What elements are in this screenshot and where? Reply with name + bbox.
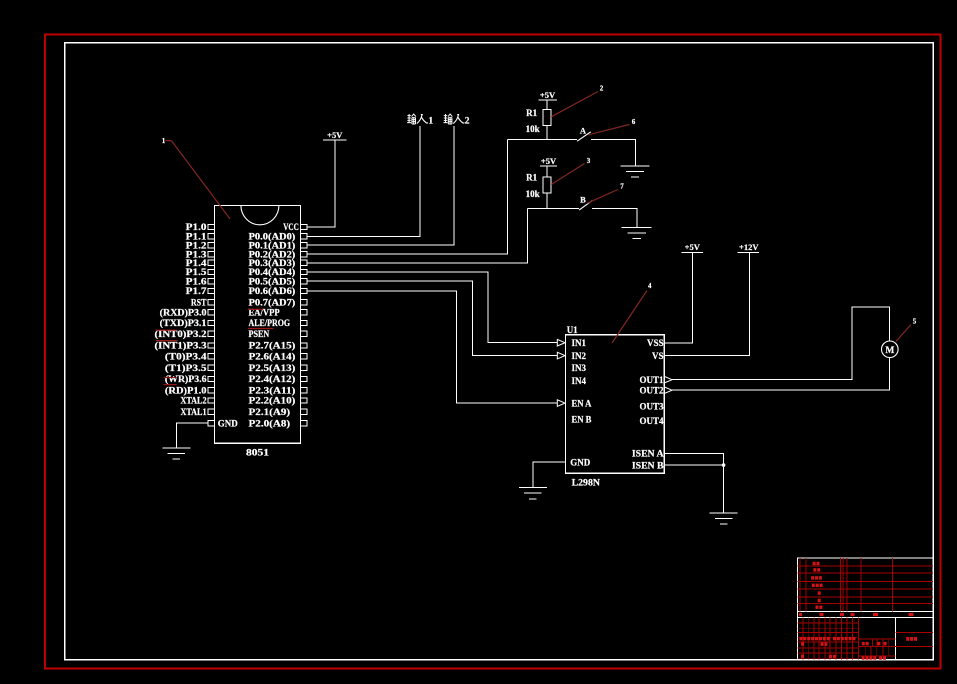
red underbar ALE / overbar PSEN [248,328,274,330]
svg-text:P2.5(A13): P2.5(A13) [249,363,296,373]
wire node B row [527,208,579,210]
motor M [882,341,899,358]
callout 5 leader [896,325,911,342]
svg-text:10k: 10k [526,124,540,134]
junction ISEN [722,463,726,467]
wire node B down to P0.3 [307,209,528,263]
wire P0.4 to IN1 [307,272,558,343]
label shuru2 (input 2) [444,114,470,127]
title block lower red grid [798,618,934,660]
svg-text:(INT1)P3.3: (INT1)P3.3 [155,341,208,351]
svg-text:A: A [580,126,587,136]
svg-text:1: 1 [162,137,166,145]
svg-text:U1: U1 [567,325,578,335]
wire +5V to VSS [664,253,692,343]
callout 2 leader [551,92,598,117]
red overbar RD [164,384,177,386]
wire ISEN B [664,464,723,466]
svg-text:8051: 8051 [246,449,269,459]
svg-text:P2.2(A10): P2.2(A10) [249,396,296,406]
wire P0.5 to IN2 [307,281,558,355]
title block lower red texts [799,637,917,660]
+5V label above R1 (A) [540,90,556,100]
svg-text:OUT1: OUT1 [639,375,664,385]
svg-text:B: B [580,194,586,204]
wire node A down to P0.2 [307,140,508,254]
output arrow OUT2 [664,387,672,394]
svg-text:EN A: EN A [572,398,592,408]
svg-text:P0.7(AD7): P0.7(AD7) [249,298,296,308]
title block white separators [798,610,934,612]
svg-text:P2.4(A12): P2.4(A12) [249,374,296,384]
callout 4 leader [612,291,647,344]
8051 right pin boxes [301,224,307,425]
svg-text:ISEN A: ISEN A [632,449,664,459]
8051 microcontroller U? body [214,205,300,443]
wire ISEN A [664,453,723,465]
wire node A row [508,139,578,141]
svg-text:2: 2 [600,85,604,93]
svg-text:VSS: VSS [647,338,664,348]
8051 left pin labels [155,222,208,417]
svg-text:XTAL2: XTAL2 [181,396,207,406]
svg-text:GND: GND [218,418,239,428]
8051 right pin labels [249,222,299,428]
svg-text:5: 5 [913,317,917,325]
svg-text:P2.1(A9): P2.1(A9) [249,407,291,417]
label shuru1 (input 1) [407,114,433,127]
wire ISEN to ground [723,465,725,513]
svg-text:(RXD)P3.0: (RXD)P3.0 [160,308,207,318]
svg-text:+5V: +5V [327,130,343,140]
svg-text:OUT3: OUT3 [639,401,664,411]
callout 1 leader [166,140,172,142]
R1 value labels (B) [526,173,540,199]
svg-text:P1.7: P1.7 [186,286,207,296]
callout 7 leader [587,190,618,204]
svg-text:IN2: IN2 [572,351,587,361]
ground symbol switch A [621,166,650,177]
svg-text:+12V: +12V [739,242,759,252]
title block parts-table red grid [798,558,934,612]
svg-text:IN1: IN1 [572,338,587,348]
svg-text:P2.6(A14): P2.6(A14) [249,352,296,362]
wire switch B to ground [592,209,637,228]
callout 6 leader [588,125,629,135]
svg-text:(TXD)P3.1: (TXD)P3.1 [160,318,207,328]
svg-text:P2.7(A15): P2.7(A15) [249,341,296,351]
svg-text:ISEN B: ISEN B [632,460,664,470]
svg-text:PSEN: PSEN [249,329,270,339]
L298N right pin labels [632,338,664,470]
input arrow IN1 [557,339,565,346]
svg-text:10k: 10k [526,189,540,199]
svg-text:GND: GND [570,457,591,467]
wire OUT1 to motor top [672,307,890,380]
svg-text:4: 4 [648,282,652,290]
wire L298N GND to ground [533,462,566,488]
switch B blade [579,201,592,210]
input arrow ENA [557,400,565,407]
svg-text:OUT2: OUT2 [639,385,664,395]
+12V power label (VS) [739,242,759,252]
output arrow OUT1 [664,376,672,383]
svg-text:+5V: +5V [685,242,701,252]
wire input2 to P0.1 [307,126,454,245]
svg-text:RST: RST [191,298,207,308]
svg-text:VS: VS [652,351,664,361]
red overbar INT0 [156,329,178,331]
svg-text:(T1)P3.5: (T1)P3.5 [165,363,207,373]
svg-text:XTAL1: XTAL1 [181,407,207,417]
svg-text:P0.5(AD5): P0.5(AD5) [249,276,296,286]
svg-text:(RD)P1.0: (RD)P1.0 [165,386,207,396]
svg-text:EN B: EN B [572,415,592,425]
title header strip red marks [799,613,914,616]
svg-text:7: 7 [620,183,624,191]
ground symbol switch B [622,228,652,239]
8051 left pin boxes [208,224,214,425]
svg-text:R1: R1 [526,108,537,118]
L298N left pin labels [570,338,592,467]
svg-text:IN4: IN4 [572,376,587,386]
svg-text:P2.3(A11): P2.3(A11) [249,386,296,396]
wire switch A to ground [591,140,636,166]
8051 top notch [241,205,279,224]
+5V power label (VSS) [685,242,701,252]
wire P0.6 to EN A [307,291,558,403]
svg-text:+5V: +5V [541,156,557,166]
svg-text:P2.0(A8): P2.0(A8) [249,418,291,428]
title block outer white box [798,558,934,660]
svg-text:L298N: L298N [572,479,601,489]
ground symbol L298N [519,488,547,499]
wire 8051 GND to ground [176,423,208,448]
ground symbol ISEN [710,513,738,524]
svg-text:(T0)P3.4: (T0)P3.4 [165,352,207,362]
wire +12V to VS [664,253,749,356]
ground symbol under 8051 [162,448,190,459]
parts table red row texts [811,562,823,609]
svg-text:(WR)P3.6: (WR)P3.6 [165,374,207,384]
red overbar INT1 [156,340,178,342]
svg-text:+5V: +5V [540,90,556,100]
svg-text:R1: R1 [526,173,537,183]
L298N driver U1 body [566,335,665,474]
svg-text:2: 2 [465,117,470,127]
resistor R1 (A) [543,100,551,140]
svg-text:3: 3 [587,157,591,165]
svg-text:M: M [885,346,894,356]
svg-text:6: 6 [632,118,636,126]
svg-text:1: 1 [428,117,433,127]
red overbar WR [164,377,177,379]
svg-text:IN3: IN3 [572,363,587,373]
svg-text:P1.6: P1.6 [186,276,207,286]
svg-text:ALE/PROG: ALE/PROG [249,318,291,328]
wire OUT2 to motor bottom [672,357,890,390]
svg-text:OUT4: OUT4 [639,416,664,426]
callout 3 leader [551,164,584,185]
wire input1 to P0.0 [307,126,420,237]
wire +5V to VCC pin [307,140,335,227]
+5V label above R1 (B) [541,156,557,166]
svg-text:P0.6(AD6): P0.6(AD6) [249,286,296,296]
resistor R1 (B) [543,166,551,209]
red overbar EA [248,308,263,310]
+5V power label (VCC of 8051) [327,130,343,140]
R1 value labels (A) [526,108,540,134]
input arrow IN2 [557,352,565,359]
switch A blade [577,132,591,141]
